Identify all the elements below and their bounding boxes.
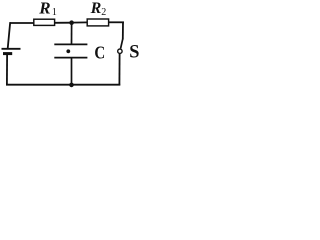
resistor R1 <box>34 19 55 25</box>
resistor R2 <box>87 19 108 26</box>
svg-text:1: 1 <box>52 7 57 18</box>
label R1 <box>38 0 57 18</box>
wire R2 to top-right corner <box>109 21 124 23</box>
capacitor branch wire lower <box>71 58 73 85</box>
wire bottom <box>6 84 120 86</box>
label C <box>94 43 105 63</box>
node junction dot (bottom) <box>69 83 74 88</box>
wire left vertical upper <box>8 22 11 48</box>
wire between node and R2 <box>72 21 88 23</box>
charged particle between plates <box>66 49 70 53</box>
wire top-left segment <box>10 22 34 24</box>
wire left vertical lower <box>6 55 8 86</box>
switch S blade <box>121 39 123 49</box>
capacitor C top plate <box>54 43 87 45</box>
capacitor C bottom plate <box>54 57 87 59</box>
label S <box>129 42 139 63</box>
svg-text:C: C <box>94 43 105 63</box>
svg-text:2: 2 <box>101 7 106 18</box>
node junction dot (top, between R1 and R2) <box>69 20 74 25</box>
svg-text:R: R <box>90 0 102 17</box>
battery positive plate (long) <box>2 48 21 50</box>
svg-text:R: R <box>38 0 50 18</box>
wire right vertical upper <box>122 22 124 40</box>
capacitor branch wire upper <box>71 23 73 45</box>
wire between R1 and node <box>55 22 72 24</box>
wire right vertical lower <box>118 53 120 85</box>
switch S contact circle <box>118 49 122 53</box>
label R2 <box>90 0 107 18</box>
svg-text:S: S <box>129 42 139 63</box>
battery negative plate (short thick) <box>3 52 12 55</box>
